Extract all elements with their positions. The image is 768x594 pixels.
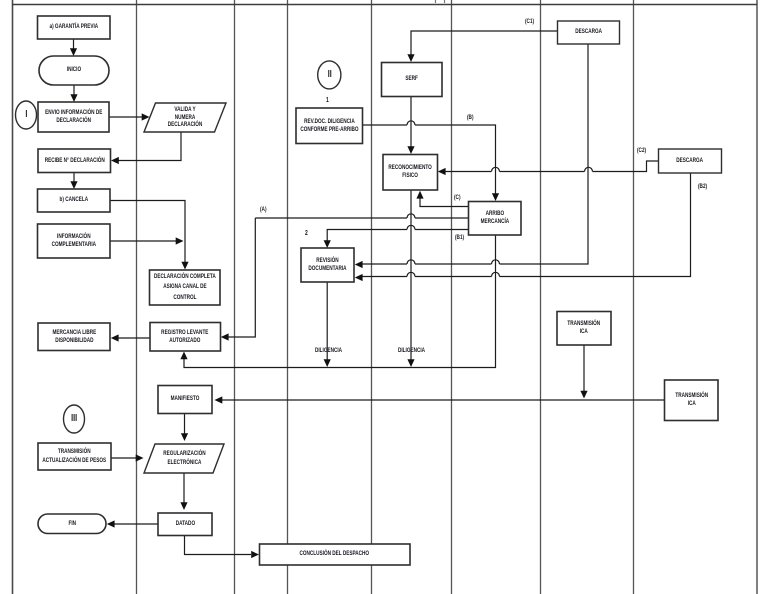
lane line 8 <box>633 0 635 594</box>
label (B2) <box>698 183 711 190</box>
label box declaracion completa <box>150 270 221 305</box>
connector circle I <box>16 101 37 129</box>
label node inicio <box>39 56 109 85</box>
wire recibe to cancela <box>73 173 75 184</box>
box declaracion completa asigna canal de control <box>150 270 221 305</box>
wire serf down to reconocimiento <box>410 97 412 147</box>
box registro levante autorizado <box>150 323 221 352</box>
label box arribo <box>469 202 522 236</box>
wire (C1) descarga1 down and left into revision documentaria <box>362 44 588 264</box>
box arribo mercancia <box>469 202 522 236</box>
label (B) <box>467 114 476 121</box>
label (C) <box>454 194 463 201</box>
wire cancela right and down to declaracion completa <box>110 201 185 263</box>
lane line 6 <box>451 0 453 594</box>
label box cancela <box>38 189 111 212</box>
lane line 5 <box>371 0 373 594</box>
box descarga 1 <box>558 21 620 44</box>
wire inicio to envio <box>73 85 75 95</box>
label box envio informacion <box>38 102 109 132</box>
label box revdoc <box>296 108 363 144</box>
box revdoc diligencia conforme pre-arribo <box>296 108 363 144</box>
wire regularizacion down to datado <box>183 473 185 503</box>
label box transmision pesos <box>38 443 111 470</box>
label box manifiesto <box>158 386 212 414</box>
label box mercancia libre <box>38 323 110 351</box>
label box descarga 1 <box>558 21 620 44</box>
lane border left <box>12 0 14 594</box>
io regularizacion electronica parallelogram <box>144 444 224 473</box>
wire registro levante to mercancia libre <box>118 337 150 339</box>
box mercancia libre disponibilidad <box>38 323 110 351</box>
label box a garantia previa <box>38 16 111 39</box>
lane line 4 <box>287 0 289 594</box>
wire (A) down into registro levante right <box>228 218 255 337</box>
label (A) <box>260 206 269 213</box>
connector circle II <box>318 61 341 89</box>
wire transmision ica2 to manifiesto <box>222 399 665 401</box>
label box recibe <box>38 149 111 173</box>
box transmision ica 1 <box>557 312 611 346</box>
wire transmision ica1 down arrow <box>583 346 585 392</box>
label connector I <box>16 101 37 129</box>
wire (A) arribo left long line <box>255 217 468 219</box>
wire (B2) descarga2 down and left into revision documentaria <box>362 174 691 277</box>
label (B1) <box>455 234 468 241</box>
wire garantia to inicio <box>73 39 75 49</box>
box reconocimiento fisico <box>383 155 438 191</box>
label connector II <box>318 61 341 89</box>
box serf <box>382 63 443 97</box>
lane border right <box>756 0 758 594</box>
label 2 <box>305 230 309 237</box>
box a garantia previa <box>38 16 111 39</box>
label box reconocimiento <box>383 155 438 191</box>
box datado <box>158 513 212 536</box>
wire transmision pesos to regularizacion <box>111 457 136 459</box>
label diligencia right <box>398 347 436 354</box>
label box datado <box>158 513 212 536</box>
box descarga 2 <box>659 149 722 173</box>
wire diligencia left arrow from revision documentaria <box>326 282 328 360</box>
wire (B) revdoc right over to arribo top <box>363 125 496 194</box>
box b cancela <box>38 189 111 212</box>
label 1 <box>326 97 330 104</box>
label (C1) <box>525 18 538 25</box>
wire long collector line and up arrow into registro levante <box>184 236 496 368</box>
label io valida y numera <box>144 103 226 132</box>
label io regularizacion <box>144 444 224 473</box>
box manifiesto <box>158 386 212 414</box>
label box transmision ica 2 <box>665 380 719 421</box>
box recibe n declaracion <box>38 149 111 173</box>
wire valida to recibe <box>118 132 181 161</box>
label (C2) <box>637 147 650 154</box>
io valida y numera declaracion parallelogram <box>144 103 226 132</box>
wire (C2) descarga2 left into reconocimiento fisico <box>445 161 659 172</box>
label box registro levante <box>150 323 221 352</box>
label node fin <box>38 514 106 534</box>
box conclusion del despacho <box>260 544 411 565</box>
wire informacion complementaria joining vertical <box>110 240 176 242</box>
header bottom rule <box>12 4 757 6</box>
lane line 3 <box>234 0 236 594</box>
box informacion complementaria <box>38 224 111 258</box>
label box serf <box>382 63 443 97</box>
node inicio oval <box>39 56 109 85</box>
wire manifiesto down to regularizacion <box>184 414 186 435</box>
connector circle III <box>64 405 85 433</box>
label connector III <box>64 405 85 433</box>
label box conclusion <box>260 544 411 565</box>
box revision documentaria <box>301 248 354 282</box>
wire datado to fin <box>114 523 158 525</box>
node fin oval <box>38 514 106 534</box>
wire diligencia right arrow from reconocimiento <box>410 191 412 361</box>
wire descarga1 to serf <box>411 31 558 55</box>
label diligencia left <box>315 347 353 354</box>
label box transmision ica 1 <box>557 312 611 346</box>
box transmision actualizacion de pesos <box>38 443 111 470</box>
lane line 7 <box>540 0 542 594</box>
wire (C) arribo left up into reconocimiento bottom <box>420 198 469 207</box>
label box revision documentaria <box>301 248 354 282</box>
box transmision ica 2 <box>665 380 719 421</box>
header text remnant ticks <box>436 0 445 3</box>
lane line 2 <box>136 0 138 594</box>
box envio informacion de declaracion <box>38 102 109 132</box>
label box informacion complementaria <box>38 224 111 258</box>
label box descarga 2 <box>659 149 722 173</box>
wire envio to valida <box>109 116 142 118</box>
wire datado down to conclusion <box>185 536 252 555</box>
wire 2 arribo left down into revision documentaria top <box>327 230 468 242</box>
